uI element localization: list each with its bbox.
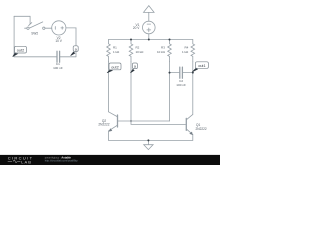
svg-text:http://circuitlab.com/csab9kp: http://circuitlab.com/csab9kp (45, 159, 78, 163)
capacitor C2 (180, 67, 183, 78)
wire R1 to Q2 collector (108, 62, 110, 112)
wire node a to C1 (60, 56, 76, 58)
svg-text:LAB: LAB (21, 159, 32, 164)
wire V2 right (66, 27, 76, 29)
svg-text:out2: out2 (111, 65, 118, 69)
wire C2 right segment (182, 72, 192, 74)
flag out1 (below R4) (192, 62, 208, 72)
capacitor C1 (57, 51, 60, 62)
wire down to node a (75, 28, 77, 57)
svg-text:a: a (134, 65, 136, 69)
wire R2 down and across to Q1 base (131, 62, 186, 125)
svg-text:out1: out1 (198, 64, 205, 68)
flag out2 (below R1) (107, 63, 121, 73)
junction dots (130, 39, 194, 142)
svg-text:SW2: SW2 (31, 31, 38, 35)
svg-text:10 kΩ: 10 kΩ (157, 50, 166, 54)
switch SW2 (25, 22, 52, 29)
svg-text:10 kΩ: 10 kΩ (136, 50, 145, 54)
transistor Q1 (186, 114, 193, 140)
transistor Q2 (109, 112, 170, 141)
resistor R1 (107, 40, 111, 62)
top rail wire (109, 39, 193, 41)
voltage source V2 (52, 21, 66, 35)
ground (144, 140, 153, 149)
resistor R4 (191, 40, 195, 62)
svg-text:2N2222: 2N2222 (98, 123, 109, 127)
voltage source V1 (143, 21, 156, 39)
wire stub down to switch (29, 16, 31, 24)
bottom rail wire (109, 139, 193, 141)
flag a (below R2) (130, 63, 137, 73)
svg-text:2N2222: 2N2222 (196, 127, 207, 131)
wire C1 to node out2 (14, 56, 57, 58)
svg-text:a: a (75, 47, 77, 51)
resistor R2 (129, 40, 133, 62)
svg-text:1 kΩ: 1 kΩ (113, 50, 120, 54)
wire C2 left segment (170, 72, 180, 74)
svg-text:100 nF: 100 nF (53, 66, 63, 70)
svg-text:10 V: 10 V (55, 39, 62, 43)
svg-text:20 V: 20 V (133, 26, 140, 30)
wire top horizontal of kicker loop (14, 15, 30, 17)
wire R4 down to Q1 collector (192, 62, 194, 115)
resistor R3 (168, 40, 172, 62)
wire R3 down to junction and Q2 base riser (169, 62, 171, 121)
svg-text:1 kΩ: 1 kΩ (182, 50, 189, 54)
svg-text:out2: out2 (17, 49, 24, 53)
svg-text:100 nF: 100 nF (176, 83, 186, 87)
flag a (kicker loop) (71, 46, 79, 56)
VCC arrow above V1 (144, 6, 155, 22)
flag out2 (kicker loop) (13, 46, 27, 56)
logo wave (8, 160, 21, 163)
wire left vertical of kicker loop (13, 16, 15, 57)
watermark bar (0, 155, 220, 165)
